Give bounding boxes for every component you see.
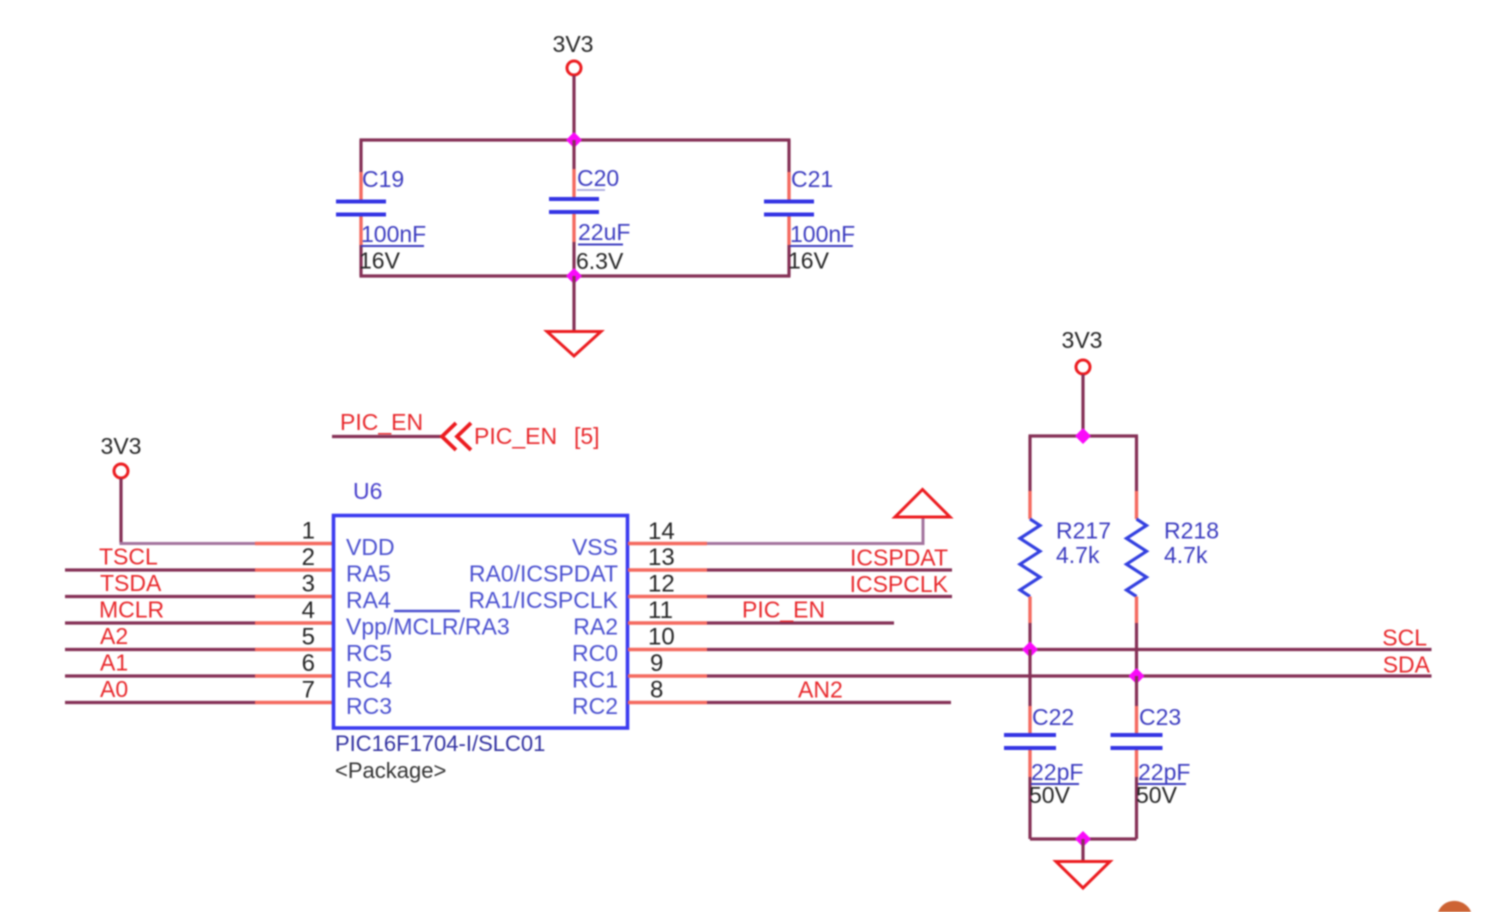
svg-text:C20: C20	[577, 165, 619, 191]
svg-text:10: 10	[648, 624, 675, 651]
svg-text:6.3V: 6.3V	[576, 248, 624, 274]
pin 12 RA1 pin wire	[628, 595, 707, 598]
svg-text:9: 9	[650, 650, 663, 677]
svg-text:PIC16F1704-I/SLC01: PIC16F1704-I/SLC01	[335, 731, 545, 756]
wire net SCL	[707, 648, 1432, 651]
pin number 2	[302, 544, 315, 571]
net label A1	[100, 650, 128, 676]
svg-text:SCL: SCL	[1382, 625, 1427, 651]
svg-text:RC5: RC5	[346, 640, 392, 666]
pin number 5	[302, 624, 315, 651]
svg-text:RC1: RC1	[572, 667, 618, 693]
wire 3V3 right vertical	[1081, 375, 1084, 437]
wire 3V3 to top bus	[572, 76, 575, 141]
capacitor C19 pin 1	[359, 172, 362, 200]
IC U6 package text	[335, 758, 446, 783]
resistor R217 pin 2	[1028, 597, 1031, 624]
svg-text:<Package>: <Package>	[335, 758, 446, 783]
resistor R217 zigzag	[1020, 519, 1040, 597]
svg-text:ICSPDAT: ICSPDAT	[850, 545, 948, 571]
resistor R218 designator	[1164, 518, 1219, 544]
pin 4 Vpp pin wire	[255, 621, 333, 624]
wire top bus horizontal	[360, 138, 791, 141]
pin number 13	[648, 544, 675, 571]
svg-text:8: 8	[650, 677, 663, 704]
ground symbol (bottom right)	[1056, 862, 1110, 889]
wire net A0	[65, 701, 256, 704]
pin number 10	[648, 624, 675, 651]
capacitor C22 value 22pF	[1031, 759, 1083, 785]
wire net MCLR	[65, 621, 256, 624]
net label SDA	[1383, 652, 1431, 678]
resistor R218 pin 1	[1135, 491, 1138, 519]
net label AN2	[798, 677, 843, 703]
svg-text:14: 14	[648, 518, 675, 545]
svg-text:50V: 50V	[1136, 782, 1178, 808]
pin 11 RA2 pin wire	[628, 621, 707, 624]
capacitor C23 value 22pF	[1138, 759, 1190, 785]
wire net ICSPCLK	[707, 595, 952, 598]
net label TSDA	[100, 570, 162, 596]
pin 3 RA4 pin wire	[255, 595, 333, 598]
resistor R217 value 4.7k	[1056, 542, 1100, 568]
svg-text:VSS: VSS	[572, 534, 618, 560]
capacitor C22 pin 1	[1028, 706, 1031, 733]
svg-text:12: 12	[648, 571, 675, 598]
svg-text:3: 3	[302, 571, 315, 598]
resistor R217 pin 1	[1028, 491, 1031, 519]
capacitor C22 plates	[1004, 735, 1056, 748]
svg-text:C22: C22	[1032, 704, 1074, 730]
svg-text:[5]: [5]	[574, 423, 600, 449]
capacitor C23 voltage 50V	[1136, 782, 1178, 808]
net label A2	[100, 623, 128, 649]
svg-text:RC0: RC0	[572, 640, 618, 666]
svg-text:C21: C21	[791, 166, 833, 192]
junction dot 3V3 right	[1075, 428, 1091, 444]
svg-text:RC2: RC2	[572, 693, 618, 719]
svg-text:5: 5	[302, 624, 315, 651]
capacitor C20 value 22uF	[578, 219, 630, 245]
pin name RA4	[346, 587, 391, 613]
ground symbol (top cluster)	[547, 332, 601, 357]
capacitor C19 designator	[362, 166, 404, 192]
wire net SDA	[707, 674, 1432, 677]
capacitor C23 plates	[1111, 735, 1163, 748]
pin number 1	[302, 518, 315, 545]
capacitor C21 voltage 16V	[788, 248, 830, 274]
IC U6 body	[334, 516, 628, 729]
wire PIC_EN stub	[332, 435, 443, 438]
wire 3V3 bus to R217	[1028, 436, 1031, 491]
svg-text:VDD: VDD	[346, 534, 395, 560]
svg-text:A1: A1	[100, 650, 128, 676]
capacitor C22 voltage 50V	[1029, 782, 1071, 808]
pin 10 RC0 pin wire	[628, 648, 707, 651]
wire net A1	[65, 674, 256, 677]
pin name RC1	[572, 667, 618, 693]
svg-text:A0: A0	[100, 676, 128, 702]
svg-text:MCLR: MCLR	[99, 597, 164, 623]
pin 7 RC3 pin wire	[255, 701, 333, 704]
off-sheet connector sheet ref [5]	[574, 423, 600, 449]
svg-text:RA1/ICSPCLK: RA1/ICSPCLK	[468, 587, 618, 613]
net label ICSPDAT	[850, 545, 948, 571]
capacitor C19 voltage 16V	[359, 248, 401, 274]
capacitor C19 pin 2	[359, 217, 362, 246]
net label MCLR	[99, 597, 164, 623]
net label PIC_EN (wire label)	[340, 409, 423, 435]
ground symbol (pin 14)	[895, 490, 950, 518]
capacitor C23 pin 1	[1135, 706, 1138, 733]
svg-text:50V: 50V	[1029, 782, 1071, 808]
pin number 3	[302, 571, 315, 598]
wire ground bus to ground symbol	[1081, 839, 1084, 861]
pin 6 RC4 pin wire	[255, 674, 333, 677]
pin name RA0/ICSPDAT	[469, 561, 618, 587]
svg-text:11: 11	[648, 597, 673, 624]
pin name VDD	[346, 534, 395, 560]
junction dot bottom bus	[566, 268, 582, 284]
wire net AN2	[707, 701, 951, 704]
svg-text:4.7k: 4.7k	[1164, 542, 1208, 568]
pin number 4	[302, 597, 315, 624]
wire R217 to SCL	[1028, 623, 1031, 650]
svg-text:PIC_EN: PIC_EN	[474, 423, 557, 449]
svg-text:RA4: RA4	[346, 587, 391, 613]
svg-text:SDA: SDA	[1383, 652, 1431, 678]
power port 3V3 (top) circle	[567, 61, 581, 75]
wire net A2	[65, 648, 256, 651]
pin 13 RA0 pin wire	[628, 568, 707, 571]
wire C22 to ground bus	[1028, 777, 1031, 839]
wire top bus right segment	[787, 140, 790, 172]
wire 3V3 bus to R218	[1135, 436, 1138, 491]
pin number 12	[648, 571, 675, 598]
capacitor C23 pin 2	[1135, 750, 1138, 777]
pin 14 VSS pin wire	[628, 542, 707, 545]
pin number 9	[650, 650, 663, 677]
svg-text:A2: A2	[100, 623, 128, 649]
decorative logo fragment bottom right corner	[1438, 901, 1471, 912]
resistor R217 designator	[1056, 518, 1111, 544]
junction dot SDA R218	[1129, 668, 1145, 684]
IC U6 part number PIC16F1704-I/SLC01	[335, 731, 545, 756]
pin name RC0	[572, 640, 618, 666]
svg-text:16V: 16V	[788, 248, 830, 274]
net label SCL	[1382, 625, 1427, 651]
pin name RC5	[346, 640, 392, 666]
svg-text:3V3: 3V3	[101, 433, 142, 459]
svg-text:RA5: RA5	[346, 561, 391, 587]
pin number 6	[302, 650, 315, 677]
wire SCL junction to C22	[1028, 650, 1031, 707]
svg-text:3V3: 3V3	[553, 31, 594, 57]
power port 3V3 (left) label	[101, 433, 142, 459]
overbar MCLR	[394, 610, 460, 612]
pin name RA1/ICSPCLK	[468, 587, 618, 613]
svg-text:PIC_EN: PIC_EN	[742, 597, 825, 623]
svg-text:1: 1	[302, 518, 315, 545]
pin number 8	[650, 677, 663, 704]
capacitor C21 pin 1	[787, 172, 790, 200]
pin 1 VDD pin wire	[255, 542, 333, 545]
junction dot ground bus	[1075, 831, 1091, 847]
power port 3V3 (top) label	[553, 31, 594, 57]
pin name VSS	[572, 534, 618, 560]
pin name RA5	[346, 561, 391, 587]
resistor R218 zigzag	[1127, 519, 1147, 597]
capacitor C20 voltage 6.3V	[576, 248, 624, 274]
svg-text:Vpp/MCLR/RA3: Vpp/MCLR/RA3	[346, 614, 510, 640]
wire 3V3 left vertical	[119, 479, 122, 544]
svg-text:7: 7	[302, 677, 315, 704]
capacitor C21 pin 2	[787, 217, 790, 246]
svg-text:TSDA: TSDA	[100, 570, 162, 596]
pin 5 RC5 pin wire	[255, 648, 333, 651]
pin number 14	[648, 518, 675, 545]
pin name RA2	[573, 614, 618, 640]
capacitor C19 plates	[336, 202, 386, 215]
capacitor C20 pin 2	[572, 214, 575, 242]
svg-text:U6: U6	[353, 478, 382, 504]
power port 3V3 (left) circle	[114, 464, 128, 478]
pin number 7	[302, 677, 315, 704]
svg-text:RA2: RA2	[573, 614, 618, 640]
capacitor C20 designator	[577, 165, 619, 191]
resistor R218 pin 2	[1135, 597, 1138, 624]
pin number 11	[648, 597, 673, 624]
wire net TSCL	[65, 568, 256, 571]
svg-text:4: 4	[302, 597, 315, 624]
wire R218 to SDA	[1135, 623, 1138, 676]
svg-text:RA0/ICSPDAT: RA0/ICSPDAT	[469, 561, 618, 587]
svg-text:13: 13	[648, 544, 675, 571]
power port 3V3 (right) label	[1062, 327, 1103, 353]
wire top bus to C20	[572, 140, 575, 169]
svg-text:ICSPCLK: ICSPCLK	[850, 571, 949, 597]
wire bottom bus to ground	[572, 276, 575, 330]
svg-text:16V: 16V	[359, 248, 401, 274]
svg-text:100nF: 100nF	[790, 221, 855, 247]
resistor R218 value 4.7k	[1164, 542, 1208, 568]
pin name RC2	[572, 693, 618, 719]
pin 2 RA5 pin wire	[255, 568, 333, 571]
power port 3V3 (right) circle	[1076, 360, 1090, 374]
svg-text:R217: R217	[1056, 518, 1111, 544]
off-sheet connector chevron PIC_EN	[442, 423, 471, 450]
capacitor C20 plates	[549, 199, 599, 212]
net label ICSPCLK	[850, 571, 949, 597]
capacitor C23 designator	[1139, 704, 1181, 730]
wire VSS to ground	[707, 518, 923, 545]
wire 3V3 to pin 1	[120, 542, 257, 545]
junction dot SCL R217	[1022, 642, 1038, 658]
wire SDA junction to C23	[1135, 676, 1138, 706]
junction dot top bus	[566, 132, 582, 148]
wire C20 to bottom bus	[572, 242, 575, 276]
svg-text:RC4: RC4	[346, 667, 392, 693]
capacitor C22 designator	[1032, 704, 1074, 730]
wire ground bus bottom	[1030, 837, 1137, 840]
svg-text:C19: C19	[362, 166, 404, 192]
pin name RC3	[346, 693, 392, 719]
svg-text:22uF: 22uF	[578, 219, 630, 245]
pin name RC4	[346, 667, 392, 693]
wire bottom bus horizontal	[360, 274, 791, 277]
svg-text:C23: C23	[1139, 704, 1181, 730]
wire C19 to bottom bus	[359, 245, 362, 276]
net label TSCL	[99, 544, 158, 570]
pin name Vpp/MCLR/RA3	[346, 614, 510, 640]
svg-text:TSCL: TSCL	[99, 544, 158, 570]
svg-text:4.7k: 4.7k	[1056, 542, 1100, 568]
svg-text:100nF: 100nF	[361, 221, 426, 247]
svg-text:3V3: 3V3	[1062, 327, 1103, 353]
wire net PIC_EN	[707, 621, 894, 624]
capacitor C19 value 100nF	[361, 221, 426, 247]
capacitor C21 value 100nF	[790, 221, 855, 247]
svg-text:PIC_EN: PIC_EN	[340, 409, 423, 435]
wire net TSDA	[65, 595, 256, 598]
wire resistor top bus	[1029, 434, 1139, 437]
capacitor C22 pin 2	[1028, 750, 1031, 777]
capacitor C21 plates	[764, 202, 814, 215]
svg-text:AN2: AN2	[798, 677, 843, 703]
svg-text:2: 2	[302, 544, 315, 571]
svg-text:RC3: RC3	[346, 693, 392, 719]
capacitor C21 designator	[791, 166, 833, 192]
net label PIC_EN (pin 11)	[742, 597, 825, 623]
off-sheet connector text PIC_EN	[474, 423, 557, 449]
pin 9 RC1 pin wire	[628, 674, 707, 677]
pin 8 RC2 pin wire	[628, 701, 707, 704]
capacitor C20 pin 1	[572, 169, 575, 197]
wire C21 to bottom bus	[787, 245, 790, 276]
wire net ICSPDAT	[707, 568, 952, 571]
svg-text:6: 6	[302, 650, 315, 677]
wire C23 to ground bus	[1135, 777, 1138, 839]
node VDD net top	[359, 140, 362, 172]
net label A0	[100, 676, 128, 702]
IC U6 designator	[353, 478, 382, 504]
svg-text:R218: R218	[1164, 518, 1219, 544]
